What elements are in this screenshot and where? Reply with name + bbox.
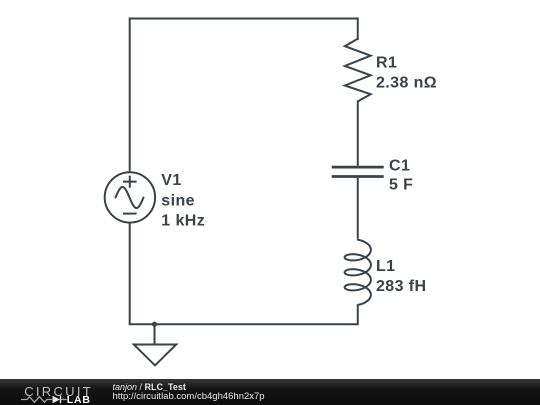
wire bottom rail bbox=[129, 323, 358, 325]
wire right top segment bbox=[357, 18, 359, 41]
svg-text:2.38 nΩ: 2.38 nΩ bbox=[376, 75, 437, 92]
svg-text:1 kHz: 1 kHz bbox=[161, 212, 205, 229]
label R1 bbox=[376, 55, 437, 92]
wire top rail bbox=[130, 18, 358, 20]
label L1 bbox=[376, 258, 426, 295]
svg-text:L1: L1 bbox=[376, 258, 395, 275]
inductor L1 bbox=[345, 240, 371, 305]
wire ground stub bbox=[154, 324, 156, 344]
voltage source V1 bbox=[105, 172, 155, 222]
wire R1 to C1 bbox=[357, 101, 359, 166]
footer url bbox=[113, 391, 265, 402]
wire left bottom segment bbox=[129, 222, 131, 324]
CircuitLab logo text CIRCUIT bbox=[24, 384, 93, 399]
svg-text:5 F: 5 F bbox=[389, 177, 413, 194]
wire C1 to L1 bbox=[357, 178, 359, 239]
svg-text:sine: sine bbox=[161, 192, 195, 209]
node junction dot bbox=[152, 322, 157, 327]
label V1 bbox=[161, 172, 205, 229]
wire right bottom segment bbox=[357, 305, 359, 326]
svg-text:283 fH: 283 fH bbox=[376, 278, 426, 295]
svg-text:V1: V1 bbox=[161, 172, 181, 189]
svg-text:http://circuitlab.com/cb4gh46h: http://circuitlab.com/cb4gh46hn2x7p bbox=[113, 391, 265, 402]
svg-text:LAB: LAB bbox=[67, 394, 91, 405]
CircuitLab logo wire and resistor symbol bbox=[21, 397, 52, 403]
label C1 bbox=[389, 157, 413, 193]
CircuitLab logo diode symbol bbox=[53, 396, 67, 404]
footer bar bbox=[0, 379, 540, 405]
svg-text:R1: R1 bbox=[376, 55, 397, 72]
ground bbox=[134, 345, 176, 366]
svg-text:C1: C1 bbox=[389, 157, 410, 174]
footer title tanjon / RLC_Test bbox=[113, 382, 186, 392]
resistor R1 bbox=[345, 39, 371, 102]
CircuitLab logo text LAB bbox=[67, 394, 91, 405]
wire left top segment bbox=[129, 18, 131, 173]
capacitor C1 bbox=[332, 167, 384, 176]
